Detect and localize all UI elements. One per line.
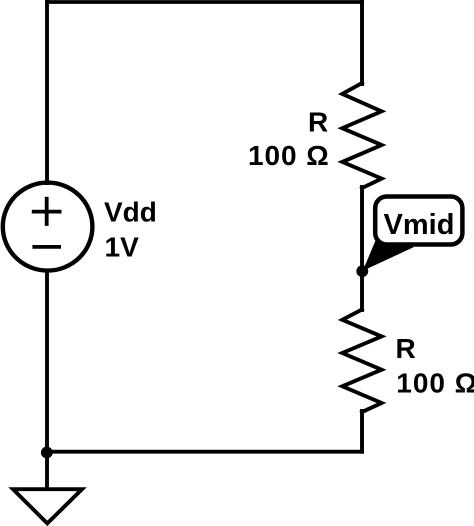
wire right bottom (R2 to bottom rail)	[360, 411, 364, 452]
resistor R1 (top) zigzag	[342, 83, 381, 188]
wire left top (Vdd+ to top rail)	[45, 2, 49, 183]
callout box Vmid	[375, 197, 462, 245]
svg-text:100 Ω: 100 Ω	[248, 140, 330, 171]
wire bottom rail	[47, 450, 362, 454]
svg-text:100 Ω: 100 Ω	[396, 367, 474, 398]
plus sign of V1	[32, 197, 62, 226]
minus sign of V1	[32, 245, 61, 249]
callout tail for Vmid	[363, 241, 414, 271]
wire right top (top rail to R1)	[360, 2, 364, 84]
svg-text:R: R	[396, 333, 416, 364]
wire ground stub	[45, 452, 49, 489]
node Vmid junction dot	[356, 265, 368, 277]
svg-text:Vdd: Vdd	[104, 197, 157, 228]
svg-text:1V: 1V	[105, 231, 140, 262]
svg-text:Vmid: Vmid	[384, 209, 455, 241]
svg-text:R: R	[308, 107, 328, 138]
junction dot bottom-left	[41, 447, 53, 459]
wire top	[47, 0, 362, 4]
wire left bottom (Vdd- to bottom rail)	[45, 271, 49, 452]
resistor R2 (bottom) zigzag	[342, 310, 381, 413]
wire middle (R1 to node Vmid to R2)	[360, 187, 364, 310]
ground symbol	[13, 489, 82, 523]
voltage source V1 (Vdd 1V) circle	[3, 183, 93, 271]
